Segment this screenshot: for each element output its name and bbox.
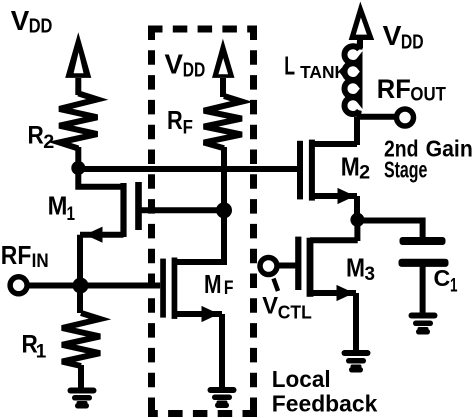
VDD supply arrow (box) [212, 39, 235, 97]
svg-text:Local: Local [272, 366, 331, 392]
svg-text:OUT: OUT [410, 84, 446, 106]
svg-text:R: R [167, 105, 183, 135]
RF_OUT output terminal [397, 109, 414, 126]
transistor M3 [295, 237, 358, 302]
svg-text:RF: RF [1, 240, 32, 270]
wire M3 drain up to node [354, 220, 360, 242]
junction dot (M2 source / M3 drain / C1) [350, 213, 364, 227]
dashed local feedback box [148, 26, 257, 418]
svg-text:DD: DD [401, 32, 424, 54]
resistor R1 [62, 313, 100, 366]
svg-text:3: 3 [365, 264, 376, 285]
VDD supply arrow (left) [65, 32, 91, 95]
svg-text:2: 2 [43, 132, 54, 153]
svg-text:M: M [346, 253, 365, 283]
svg-text:F: F [183, 118, 193, 139]
wire M2 drain up to output node [354, 117, 360, 145]
svg-text:DD: DD [29, 15, 53, 37]
junction dot (R2 / M1 drain / M2 gate) [71, 161, 85, 175]
svg-text:C: C [434, 265, 451, 291]
svg-text:DD: DD [183, 60, 206, 82]
svg-text:M: M [48, 191, 68, 221]
junction dot RF_IN node [73, 278, 89, 294]
svg-text:V: V [165, 49, 184, 80]
wire M2 source down to node [354, 196, 360, 220]
wire M3 source to ground [353, 293, 359, 352]
transistor M2 [297, 140, 357, 205]
svg-text:Stage: Stage [384, 157, 427, 183]
svg-text:RF: RF [377, 74, 411, 104]
ground (MF) [208, 387, 237, 408]
svg-text:1: 1 [67, 204, 76, 225]
wire node down to M1 drain [78, 168, 123, 187]
wire R1 to ground [78, 365, 84, 390]
V_CTL terminal [260, 258, 296, 292]
svg-text:F: F [224, 278, 234, 299]
svg-text:L: L [284, 51, 295, 81]
svg-text:Feedback: Feedback [272, 391, 378, 417]
wire MF source to ground [219, 314, 225, 390]
ground (C1) [409, 313, 438, 335]
VDD supply arrow (right) [349, 2, 375, 49]
wire node to M2 gate [78, 166, 297, 172]
RF_IN input terminal [10, 277, 27, 294]
svg-text:Gain: Gain [426, 136, 473, 162]
ground (R1) [68, 388, 97, 409]
svg-text:M: M [341, 151, 360, 181]
svg-text:TANK: TANK [300, 62, 347, 82]
resistor RF [204, 96, 242, 148]
transistor MF [160, 258, 222, 323]
svg-text:IN: IN [32, 251, 49, 272]
svg-text:V: V [383, 20, 402, 51]
wire M1 source down to R1 [77, 235, 83, 313]
inductor L_TANK [345, 40, 360, 117]
wire RF_IN to MF gate [27, 283, 160, 289]
svg-text:CTL: CTL [278, 303, 312, 323]
svg-text:V: V [262, 293, 278, 320]
svg-text:V: V [11, 5, 30, 36]
ground (M3) [342, 350, 371, 373]
transistor M1 [80, 182, 224, 243]
svg-text:2: 2 [359, 163, 370, 184]
resistor R2 [59, 93, 97, 148]
svg-text:1: 1 [36, 342, 47, 363]
wire R2 bottom to node [75, 147, 81, 169]
junction dot (RF / M1 gate / MF drain) [216, 202, 232, 218]
wire node to C1 [357, 221, 423, 242]
capacitor C1 [399, 237, 449, 267]
svg-text:M: M [204, 269, 222, 299]
svg-text:R: R [28, 121, 44, 149]
wire inductor to M2 drain and RF_OUT [357, 114, 396, 120]
wire C1 to ground [420, 266, 426, 314]
wire RF bottom through crossing to MF drain [175, 147, 225, 262]
svg-text:1: 1 [450, 276, 458, 297]
